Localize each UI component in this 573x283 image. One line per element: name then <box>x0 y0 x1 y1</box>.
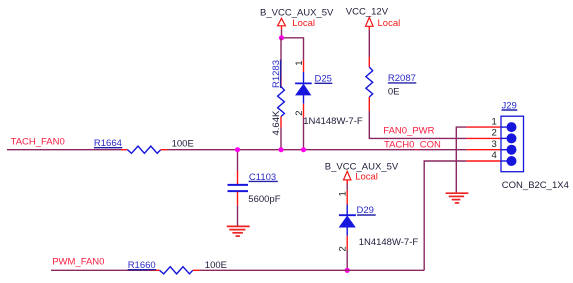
label R1283 (rotated) <box>271 60 282 88</box>
svg-text:Local: Local <box>378 18 401 29</box>
wire R1283 bottom <box>280 128 282 150</box>
svg-text:Local: Local <box>292 18 315 29</box>
svg-text:1N4148W-7-F: 1N4148W-7-F <box>359 237 419 248</box>
wire top branch to D25 <box>282 38 304 60</box>
label C1103 <box>249 172 278 183</box>
svg-text:FAN0_PWR: FAN0_PWR <box>383 125 434 136</box>
connector J29 <box>466 116 523 172</box>
svg-text:3: 3 <box>492 139 497 150</box>
power symbol B_VCC_AUX_5V (lower) <box>325 162 399 184</box>
label R1660 <box>128 260 156 271</box>
node C1103 junction <box>235 147 240 152</box>
svg-text:TACH0_CON: TACH0_CON <box>384 139 441 150</box>
svg-text:4: 4 <box>492 150 497 161</box>
node D29 junction <box>345 268 350 273</box>
power symbol VCC_12V <box>346 7 400 30</box>
svg-text:0E: 0E <box>388 87 400 98</box>
resistor R2087 <box>366 57 373 111</box>
resistor R1664 <box>121 146 168 153</box>
wire power to junction <box>281 30 283 38</box>
svg-text:2: 2 <box>492 128 497 139</box>
diode D25 <box>295 60 312 118</box>
label D29 <box>357 205 376 216</box>
node junction top <box>279 35 284 40</box>
wire TACH line right of R1664 <box>168 149 467 151</box>
wire VCC_12V to R2087 <box>368 30 370 57</box>
svg-text:1: 1 <box>492 116 497 127</box>
svg-text:100E: 100E <box>205 260 227 271</box>
svg-text:VCC_12V: VCC_12V <box>346 7 389 18</box>
label R1664 <box>94 138 122 149</box>
svg-text:1: 1 <box>294 61 305 66</box>
ground below connector <box>446 193 469 203</box>
svg-text:PWM_FAN0: PWM_FAN0 <box>52 256 104 267</box>
svg-text:100E: 100E <box>172 138 194 149</box>
node R1283 junction <box>278 147 283 152</box>
wire PWM_FAN0 left <box>51 269 149 271</box>
label J29 <box>502 100 518 111</box>
svg-text:1: 1 <box>337 191 348 196</box>
power symbol B_VCC_AUX_5V (top) <box>260 8 334 30</box>
resistor R1660 <box>149 267 200 274</box>
wire D29 bottom <box>346 250 348 271</box>
diode D29 <box>339 191 356 250</box>
svg-text:Local: Local <box>355 172 378 183</box>
wire pin1 to ground <box>456 127 466 192</box>
label R2087 <box>388 73 416 84</box>
resistor R1283 <box>278 77 285 128</box>
wire junction down to R1283 <box>280 38 282 77</box>
wire C1103 to ground <box>237 206 239 226</box>
wire R2087 to FAN0_PWR corner <box>369 111 466 138</box>
wire D25 bottom <box>303 118 305 150</box>
wire PWM up to pin4 <box>424 161 466 270</box>
label D25 <box>315 74 333 85</box>
svg-text:1N4148W-7-F: 1N4148W-7-F <box>303 116 363 127</box>
wire C1103 top <box>237 150 239 171</box>
wire TACH_FAN0 main horizontal <box>7 149 121 151</box>
wire power to D29 <box>346 184 348 191</box>
svg-text:5600pF: 5600pF <box>248 194 280 205</box>
ground below C1103 <box>227 226 250 236</box>
svg-text:TACH_FAN0: TACH_FAN0 <box>11 136 65 147</box>
wire PWM line right of R1660 <box>200 269 425 271</box>
svg-text:CON_B2C_1X4: CON_B2C_1X4 <box>502 180 569 191</box>
capacitor C1103 <box>228 171 249 206</box>
node D25 junction <box>301 147 306 152</box>
